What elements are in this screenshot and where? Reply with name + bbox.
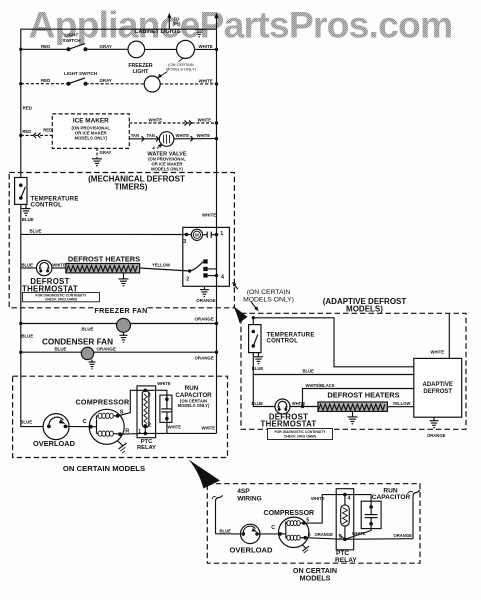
svg-text:WHITE: WHITE (176, 133, 190, 138)
relay PTC box (main) (137, 386, 156, 438)
note diagnostic continuity (adaptive) (268, 429, 333, 440)
compressor motor (89, 409, 124, 444)
svg-text:ICE MAKER: ICE MAKER (73, 118, 109, 125)
node timer pin 1 (215, 233, 218, 236)
svg-text:GRAY: GRAY (100, 44, 112, 49)
board ADAPTIVE DEFROST (414, 358, 462, 417)
wire white to adaptive board (448, 313, 450, 358)
svg-text:RED: RED (43, 128, 52, 133)
ground adaptive board (433, 417, 435, 421)
thermostat temperature control (adaptive) (252, 318, 254, 325)
svg-text:ADAPTIVE: ADAPTIVE (423, 382, 453, 388)
svg-text:3: 3 (148, 392, 151, 398)
svg-text:RELAY: RELAY (137, 445, 156, 451)
arrow to adaptive box (251, 302, 256, 308)
ground top rail (195, 30, 203, 37)
capacitor run (main) (160, 395, 172, 422)
overload protector (4SP) (241, 524, 260, 543)
wire timer pin4 (208, 275, 217, 277)
svg-text:WHITE: WHITE (199, 44, 213, 49)
svg-text:BLUE: BLUE (55, 347, 67, 352)
wire timer internal step (208, 235, 217, 269)
svg-text:1: 1 (138, 429, 141, 435)
svg-text:DEFROST HEATERS: DEFROST HEATERS (327, 390, 399, 399)
svg-text:CABINET LIGHTS: CABINET LIGHTS (135, 29, 181, 35)
node compressor S (116, 414, 120, 418)
svg-text:ORANGE: ORANGE (195, 316, 214, 321)
svg-text:COMPRESSOR: COMPRESSOR (76, 397, 131, 406)
node compressor R (118, 432, 122, 436)
svg-text:ORANGE: ORANGE (97, 347, 116, 352)
svg-text:ORANGE: ORANGE (195, 355, 214, 360)
svg-text:BLUE: BLUE (252, 401, 264, 406)
svg-text:YELLOW: YELLOW (152, 263, 170, 268)
svg-text:SWITCH: SWITCH (63, 38, 82, 43)
svg-text:BLUE: BLUE (82, 327, 94, 332)
contact timer square top (203, 259, 207, 263)
svg-text:WHITE: WHITE (311, 496, 325, 501)
node compressor 6 (4SP) (303, 536, 307, 540)
svg-text:4: 4 (221, 274, 224, 280)
svg-text:DEFROST HEATERS: DEFROST HEATERS (68, 254, 140, 263)
svg-text:RED: RED (41, 78, 50, 83)
timer cam break (203, 234, 208, 236)
wire orange bottom (4SP) (305, 538, 345, 540)
node compressor 5 (4SP) (302, 521, 306, 525)
motor timer M (186, 234, 191, 236)
svg-text:BLUE: BLUE (21, 333, 33, 338)
svg-text:WHITE: WHITE (197, 133, 211, 138)
solenoid water valve (159, 132, 174, 147)
wire R to PTC pin1 (120, 432, 145, 435)
node row2 right junction (215, 82, 218, 85)
svg-text:2: 2 (186, 276, 189, 282)
resistor defrost heaters (adaptive) (318, 402, 388, 411)
wire white thermostat to heater (52, 267, 66, 269)
adaptive defrost dashed box (241, 313, 466, 429)
svg-text:DEFROST: DEFROST (423, 389, 452, 395)
svg-text:WHITE: WHITE (52, 262, 66, 267)
resistor defrost heaters (mech) (66, 264, 140, 273)
switch S2 light switch row2 (67, 82, 71, 86)
svg-text:WHITE: WHITE (198, 117, 212, 122)
svg-text:CHECK 240Ω OHMS: CHECK 240Ω OHMS (284, 435, 317, 439)
wire PTC3 to run capacitor (145, 390, 167, 399)
svg-text:ORANGE: ORANGE (196, 298, 215, 303)
svg-text:ORANGE: ORANGE (394, 533, 413, 538)
lamp freezer light (144, 76, 160, 92)
motor freezer fan (117, 318, 131, 332)
ground compressor chassis (4SP) (302, 545, 306, 549)
wire condenser fan row (19, 351, 22, 354)
svg-text:LIGHT SWITCH: LIGHT SWITCH (64, 71, 98, 76)
svg-text:AppliancePartsPros.com: AppliancePartsPros.com (29, 3, 453, 45)
wire white thermostat to heater (adaptive) (290, 406, 318, 408)
4SP wiring dashed box (207, 484, 420, 564)
wire orange riser with break (4SP) (413, 490, 420, 539)
svg-text:LIGHT: LIGHT (133, 69, 149, 75)
svg-text:FREEZER FAN: FREEZER FAN (94, 306, 147, 315)
svg-text:WHITE: WHITE (431, 349, 445, 354)
svg-text:THERMOSTAT: THERMOSTAT (22, 284, 78, 293)
svg-text:1: 1 (220, 231, 223, 237)
svg-text:GRAY: GRAY (100, 78, 112, 83)
wire overload to compressor (4SP) (257, 533, 280, 535)
svg-text:MODELS ONLY): MODELS ONLY) (178, 403, 210, 408)
node PTC pin5 (4SP) (344, 526, 346, 539)
note diagnostic continuity (mech) (22, 293, 99, 302)
callout arrow big (adaptive) (233, 306, 247, 323)
wire PTC4 to run capacitor (4SP) (345, 495, 371, 507)
ground compressor chassis (118, 441, 123, 446)
svg-text:TAN: TAN (147, 133, 155, 138)
svg-text:WHITE: WHITE (202, 425, 216, 430)
lamp cabinet light 2 (177, 40, 195, 58)
mechanical defrost timers dashed box (9, 173, 234, 308)
svg-text:MODELS ONLY): MODELS ONLY) (75, 136, 108, 141)
callout arrow big (4SP) (189, 460, 221, 489)
wire blue vertical (adaptive) (253, 353, 275, 407)
svg-text:MODELS: MODELS (300, 574, 331, 583)
node white/black junction (301, 405, 304, 408)
wire ice maker white out (dashed) (129, 122, 216, 124)
capacitor run (4SP) (361, 501, 381, 528)
svg-text:C: C (271, 525, 275, 531)
svg-text:RED: RED (22, 129, 31, 134)
ice maker box U2 (52, 114, 129, 148)
svg-text:BLUE: BLUE (22, 217, 34, 222)
svg-text:FOR DIAGNOSTIC CONTINUITY: FOR DIAGNOSTIC CONTINUITY (274, 430, 326, 434)
wire white/black to adaptive board (303, 389, 414, 407)
svg-text:LIGHT: LIGHT (65, 33, 79, 38)
svg-text:WHITE/BLACK: WHITE/BLACK (306, 383, 335, 388)
node timer pin 3 (185, 233, 188, 236)
svg-text:MODELS ONLY): MODELS ONLY) (166, 66, 197, 71)
svg-text:ORANGE: ORANGE (427, 433, 446, 438)
svg-text:RED: RED (23, 106, 32, 111)
contact timer square bottom (203, 273, 207, 277)
svg-text:GRAY: GRAY (100, 150, 112, 155)
svg-text:BLUE: BLUE (30, 229, 42, 234)
switch timer blade pin 2 (188, 269, 191, 272)
label FREEZER FAN (96, 306, 147, 315)
svg-text:WHITE: WHITE (199, 78, 213, 83)
svg-text:CHECK 240Ω OHMS: CHECK 240Ω OHMS (45, 298, 78, 302)
ground timer (203, 286, 205, 289)
node row2 left junction (19, 82, 22, 85)
svg-text:MODELS ONLY): MODELS ONLY) (151, 167, 183, 172)
svg-text:WHITE: WHITE (202, 213, 216, 218)
wire water valve white to bus (174, 138, 217, 140)
ground ice maker (92, 159, 102, 166)
wire left bus lower (21, 198, 43, 427)
switch S1 light switch top (67, 47, 71, 51)
pin 4 water valve (157, 145, 162, 149)
wire blue to adaptive board (253, 374, 413, 376)
ground freezer fan (123, 332, 125, 335)
svg-text:TAN: TAN (131, 133, 139, 138)
ground defrost heaters (adaptive) (352, 411, 354, 417)
node PTC pin3 (144, 389, 148, 393)
wire blue feed with break (4SP) (216, 495, 223, 534)
svg-text:3: 3 (183, 239, 186, 245)
svg-text:WIRING: WIRING (237, 496, 262, 503)
wire overload to compressor (65, 425, 90, 427)
ground temperature control (mech) (25, 204, 27, 208)
svg-text:TIMERS): TIMERS) (115, 182, 148, 191)
svg-text:BLUE: BLUE (303, 369, 315, 374)
wire adaptive top white (252, 316, 255, 319)
svg-text:4: 4 (152, 145, 155, 150)
contact timer square mid (203, 267, 207, 271)
wire white 5 to PTC4 (304, 495, 345, 523)
svg-text:RELAY: RELAY (335, 557, 357, 564)
connector arrow TO (P1) (168, 16, 170, 29)
svg-text:CONTROL: CONTROL (267, 338, 299, 345)
wire S to PTC pin3 (118, 390, 146, 416)
svg-text:CONTROL: CONTROL (31, 201, 63, 208)
svg-text:OVERLOAD: OVERLOAD (33, 439, 76, 448)
arrow to mech box (234, 285, 238, 290)
svg-text:4SP: 4SP (237, 488, 250, 495)
ground condenser fan (91, 359, 93, 362)
relay PTC box (4SP) (336, 489, 354, 550)
svg-text:THERMOSTAT: THERMOSTAT (261, 420, 317, 429)
ground defrost heaters (mech) (123, 273, 125, 279)
wire yellow heater to adaptive board (387, 406, 413, 408)
node PTC pin2 (144, 424, 148, 428)
thermostat defrost (adaptive) (275, 399, 290, 414)
svg-text:(P1): (P1) (173, 22, 182, 27)
svg-text:MODELS): MODELS) (346, 304, 383, 313)
wire red to ice maker (dashed) (19, 134, 22, 137)
svg-text:(ON CERTAIN: (ON CERTAIN (247, 289, 291, 296)
wire row1 (21, 48, 69, 50)
node row1 right junction (215, 48, 218, 51)
svg-text:BLUE: BLUE (220, 529, 232, 534)
svg-text:CONDENSER FAN: CONDENSER FAN (42, 338, 113, 347)
svg-text:WHITE: WHITE (168, 424, 182, 429)
defrost timer box (183, 227, 230, 286)
svg-text:WHITE: WHITE (157, 381, 171, 386)
overload protector (43, 414, 69, 440)
svg-text:YELLOW: YELLOW (393, 401, 411, 406)
wire ice maker tan to water valve (129, 138, 159, 140)
wire yellow heater to timer pin 2 (140, 268, 190, 271)
wire white PTC1 to bus (145, 432, 216, 434)
node PTC pin4 (4SP) (344, 495, 346, 505)
wire right white bus (216, 15, 218, 286)
svg-text:WHITE: WHITE (352, 531, 366, 536)
ground temperature control (adaptive) (258, 353, 260, 357)
node PTC pin1 (144, 426, 146, 434)
svg-text:C: C (83, 419, 87, 425)
compressor motor (4SP) (279, 517, 309, 547)
wire freezer fan row (19, 322, 22, 325)
thermostat temperature control (mech) (15, 178, 27, 205)
connector arrow P1 right (214, 13, 219, 19)
wire row2 dashed (21, 83, 217, 85)
thermostat defrost (mech) (37, 260, 52, 275)
motor condenser fan (81, 347, 93, 359)
lamp cabinet light 1 (128, 41, 145, 58)
svg-text:M: M (195, 233, 199, 238)
svg-text:BLUE: BLUE (20, 419, 32, 424)
wire top rail (21, 29, 217, 185)
svg-text:4: 4 (348, 495, 351, 501)
compressor section dashed box (13, 376, 228, 457)
svg-text:CAPACITOR: CAPACITOR (372, 494, 411, 501)
svg-text:OVERLOAD: OVERLOAD (229, 546, 273, 555)
svg-text:RED: RED (41, 44, 50, 49)
svg-text:ON CERTAIN MODELS: ON CERTAIN MODELS (63, 464, 145, 473)
svg-text:BLUE: BLUE (22, 263, 34, 268)
svg-text:2: 2 (148, 423, 151, 429)
wire blue to timer pin 3 (21, 233, 187, 235)
wire ice maker gray ground stub (96, 148, 98, 158)
node row1 left junction (19, 48, 22, 51)
wire blue defrost row (21, 267, 37, 269)
svg-text:ORANGE: ORANGE (315, 532, 334, 537)
svg-text:WHITE: WHITE (149, 117, 163, 122)
svg-text:COMPRESSOR: COMPRESSOR (264, 510, 315, 517)
wire run cap bottom to PTC5 (4SP) (345, 524, 371, 540)
